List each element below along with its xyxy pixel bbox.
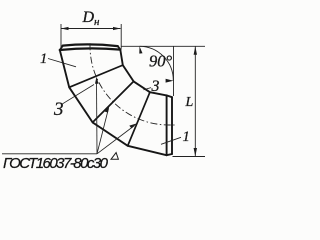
svg-text:D: D: [82, 9, 95, 26]
svg-text:3: 3: [53, 99, 64, 120]
svg-text:1: 1: [183, 129, 190, 145]
svg-text:L: L: [185, 95, 194, 110]
svg-text:1: 1: [40, 51, 47, 67]
svg-text:3: 3: [151, 78, 160, 95]
svg-text:ГОСТ16037-80с30: ГОСТ16037-80с30: [3, 155, 109, 172]
svg-text:90°: 90°: [149, 52, 173, 71]
svg-text:н: н: [94, 16, 100, 28]
